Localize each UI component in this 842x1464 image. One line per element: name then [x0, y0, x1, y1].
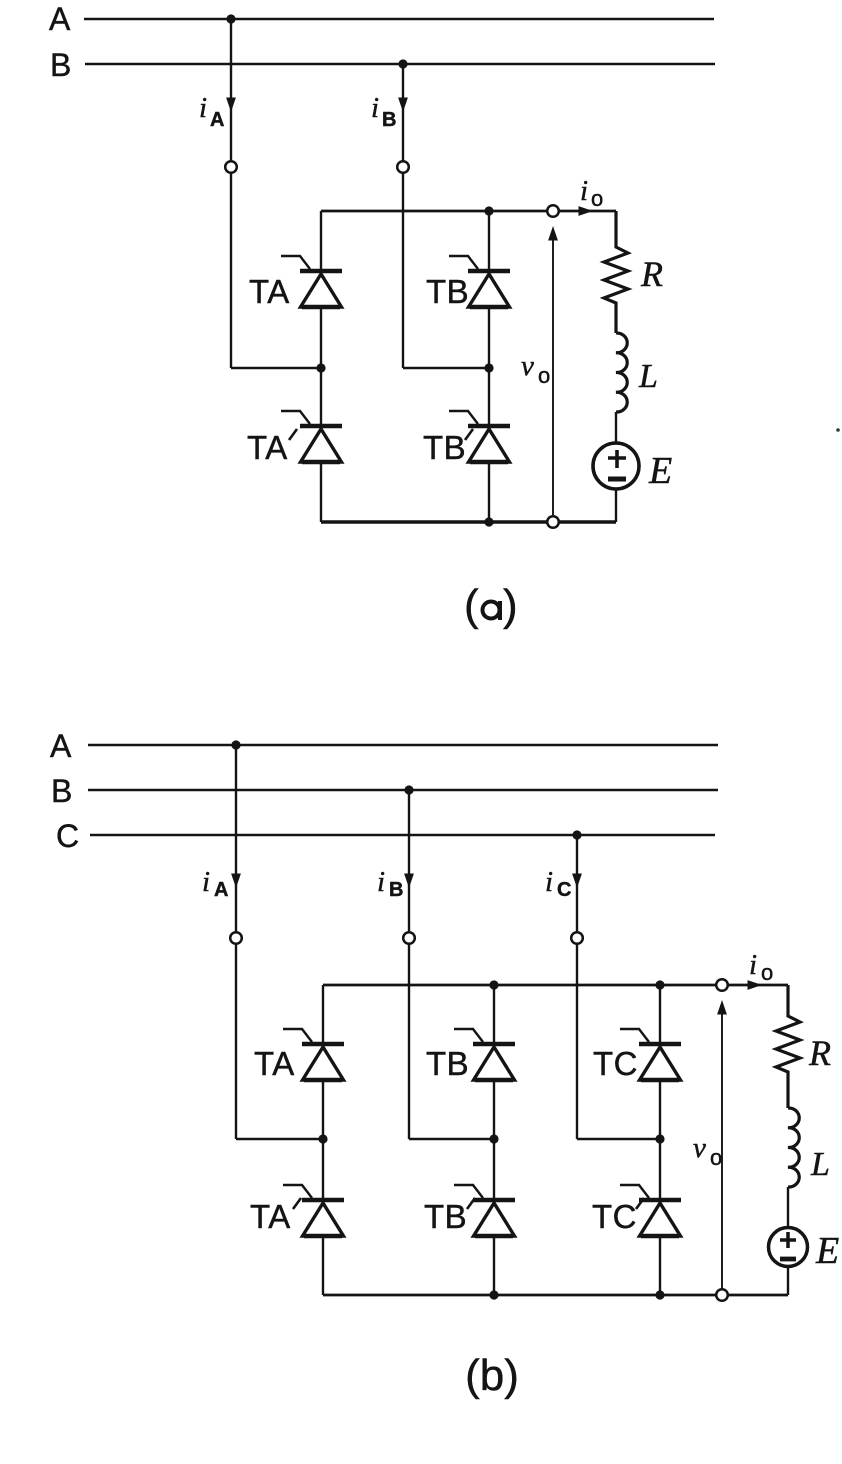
svg-text:C: C [557, 879, 571, 901]
svg-text:i: i [202, 866, 210, 898]
svg-text:E: E [648, 450, 672, 492]
svg-text:A: A [210, 109, 224, 131]
svg-text:TA: TA [247, 429, 288, 466]
svg-text:i: i [749, 949, 757, 981]
svg-text:TB: TB [426, 1045, 469, 1082]
svg-text:o: o [710, 1145, 722, 1170]
svg-text:i: i [371, 92, 379, 124]
svg-text:L: L [638, 358, 658, 395]
svg-text:TA: TA [249, 273, 290, 310]
svg-text:R: R [808, 1033, 831, 1073]
svg-text:(: ( [464, 581, 479, 630]
svg-text:L: L [810, 1146, 830, 1183]
svg-text:A: A [49, 1, 71, 37]
svg-text:v: v [521, 350, 534, 382]
svg-text:): ) [503, 581, 518, 630]
svg-text:v: v [693, 1132, 706, 1164]
svg-text:o: o [761, 960, 773, 985]
svg-text:B: B [50, 47, 71, 83]
svg-text:B: B [51, 773, 72, 809]
svg-text:TA: TA [250, 1198, 291, 1235]
svg-text:i: i [377, 866, 385, 898]
svg-text:TB: TB [426, 273, 469, 310]
svg-text:E: E [815, 1230, 839, 1272]
svg-text:TB: TB [423, 429, 466, 466]
svg-text:C: C [56, 818, 79, 854]
svg-text:i: i [545, 866, 553, 898]
svg-text:B: B [389, 879, 403, 901]
svg-text:A: A [50, 728, 72, 764]
svg-text:i: i [580, 175, 588, 207]
svg-text:i: i [199, 92, 207, 124]
svg-text:R: R [640, 254, 663, 294]
svg-text:B: B [382, 109, 396, 131]
svg-text:A: A [214, 879, 228, 901]
svg-text:TB: TB [424, 1198, 467, 1235]
svg-text:(b): (b) [465, 1351, 519, 1400]
svg-text:TC: TC [592, 1198, 637, 1235]
svg-text:o: o [591, 186, 603, 211]
svg-text:TA: TA [254, 1045, 295, 1082]
svg-text:TC: TC [593, 1045, 638, 1082]
svg-text:o: o [538, 363, 550, 388]
